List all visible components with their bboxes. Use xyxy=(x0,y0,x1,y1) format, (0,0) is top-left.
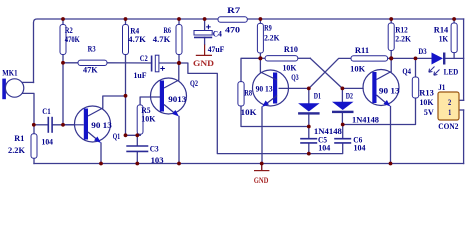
svg-text:470: 470 xyxy=(225,26,240,35)
svg-text:470K: 470K xyxy=(65,35,81,44)
svg-text:47K: 47K xyxy=(83,65,98,74)
svg-text:R2: R2 xyxy=(65,26,73,35)
svg-text:2.2K: 2.2K xyxy=(8,146,26,155)
svg-text:2.2K: 2.2K xyxy=(264,33,280,42)
svg-text:J1: J1 xyxy=(438,83,445,92)
svg-text:R7: R7 xyxy=(227,6,240,15)
svg-text:1N4148: 1N4148 xyxy=(352,116,379,125)
svg-text:1N4148: 1N4148 xyxy=(314,127,342,136)
svg-text:R11: R11 xyxy=(355,46,369,55)
svg-text:R9: R9 xyxy=(264,24,272,33)
svg-text:2.2K: 2.2K xyxy=(395,35,411,44)
svg-text:R10: R10 xyxy=(284,45,298,54)
svg-text:R12: R12 xyxy=(395,25,408,34)
svg-text:CON2: CON2 xyxy=(438,122,458,131)
svg-text:10K: 10K xyxy=(141,114,156,123)
svg-text:R8: R8 xyxy=(244,89,252,98)
svg-text:C2: C2 xyxy=(140,54,148,63)
svg-text:R13: R13 xyxy=(419,88,434,97)
svg-text:10K: 10K xyxy=(350,65,366,74)
svg-text:R3: R3 xyxy=(88,45,96,54)
svg-text:D2: D2 xyxy=(346,91,353,100)
svg-text:MK1: MK1 xyxy=(2,69,17,78)
svg-text:9013: 9013 xyxy=(168,95,186,104)
svg-text:104: 104 xyxy=(354,143,366,152)
svg-text:Q2: Q2 xyxy=(190,79,198,88)
svg-text:1uF: 1uF xyxy=(134,71,147,80)
svg-text:1K: 1K xyxy=(439,35,449,44)
svg-text:C1: C1 xyxy=(42,107,51,116)
svg-text:10K: 10K xyxy=(420,98,435,107)
svg-text:Q4: Q4 xyxy=(402,67,411,76)
svg-text:R14: R14 xyxy=(434,25,448,34)
svg-text:103: 103 xyxy=(151,156,164,165)
svg-text:C4: C4 xyxy=(213,30,222,39)
svg-text:90 13: 90 13 xyxy=(91,121,112,130)
svg-text:1: 1 xyxy=(448,108,451,117)
svg-text:47uF: 47uF xyxy=(208,45,225,54)
svg-text:90 13: 90 13 xyxy=(379,86,400,95)
svg-text:LED: LED xyxy=(444,68,459,77)
svg-text:104: 104 xyxy=(318,143,330,152)
svg-text:4.7K: 4.7K xyxy=(128,35,146,44)
svg-text:R1: R1 xyxy=(14,134,24,143)
svg-text:5V: 5V xyxy=(424,108,434,117)
svg-text:Q3: Q3 xyxy=(291,73,298,82)
svg-text:104: 104 xyxy=(42,138,54,147)
svg-text:4.7K: 4.7K xyxy=(153,35,171,44)
svg-text:GND: GND xyxy=(193,59,214,68)
svg-text:2: 2 xyxy=(448,98,451,107)
svg-text:GND: GND xyxy=(254,176,269,185)
svg-text:D1: D1 xyxy=(314,91,321,100)
svg-text:10K: 10K xyxy=(283,63,298,72)
svg-text:10K: 10K xyxy=(241,108,258,117)
svg-text:C3: C3 xyxy=(150,145,159,154)
svg-text:D3: D3 xyxy=(418,47,426,56)
svg-text:90 13: 90 13 xyxy=(256,85,273,94)
svg-text:Q1: Q1 xyxy=(113,132,120,141)
